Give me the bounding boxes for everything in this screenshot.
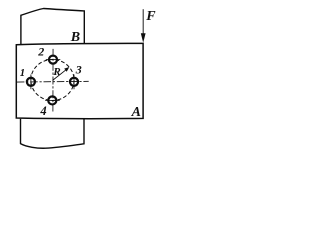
bolt 1 (left) <box>27 75 35 90</box>
force F line <box>142 9 144 34</box>
svg-text:2: 2 <box>37 45 44 59</box>
bolt 3 (right) <box>70 75 78 90</box>
bolt 4 (bottom) <box>45 96 60 104</box>
horizontal centerline <box>17 80 89 83</box>
svg-text:R: R <box>52 66 60 78</box>
bolt 2 (top) <box>46 56 61 64</box>
svg-text:F: F <box>145 9 156 24</box>
svg-text:1: 1 <box>20 67 25 79</box>
bolt pitch circle (dashed) <box>31 60 74 101</box>
vertical centerline <box>52 49 54 112</box>
column lower portion <box>21 119 85 148</box>
svg-text:A: A <box>131 105 141 120</box>
plate A outline <box>16 43 143 118</box>
svg-text:4: 4 <box>39 104 46 118</box>
radius R arrow <box>53 67 70 80</box>
column upper portion (member B) <box>21 9 84 45</box>
force F arrowhead <box>141 33 146 43</box>
svg-text:3: 3 <box>75 63 82 77</box>
svg-text:B: B <box>70 30 80 45</box>
